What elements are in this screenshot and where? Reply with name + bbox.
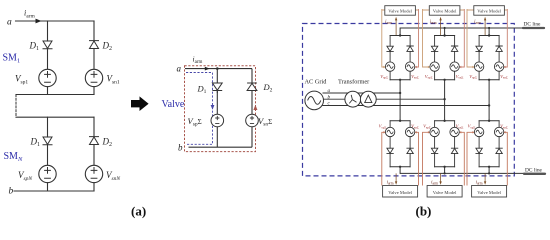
- diode D2 (SM1): [90, 41, 99, 52]
- wire SMN top rail: [16, 116, 94, 118]
- red dashed box (valve boundary): [185, 66, 256, 152]
- control wire upper valve 1 right: [416, 9, 419, 67]
- AC grid source: [305, 91, 324, 110]
- wire left branch SMN: [47, 117, 49, 137]
- node bus junction leg2 bottom: [444, 172, 446, 174]
- transformer delta circle: [360, 91, 376, 107]
- wire source to bottom (right): [251, 127, 253, 147]
- wire between D1 and source: [47, 49, 49, 69]
- svg-text:Transformer: Transformer: [338, 79, 370, 86]
- leg 2 vertical: [444, 80, 446, 121]
- diode D1 (valve): [212, 83, 222, 93]
- upper valve leg 2: [425, 6, 464, 81]
- blue dashed system boundary: [303, 24, 515, 176]
- wire left branch (valve): [216, 69, 218, 83]
- wire left branch SM1 upper: [47, 21, 49, 41]
- control wire lower valve 3 left: [467, 132, 473, 185]
- source Vsp sum circle: [211, 114, 224, 127]
- wire right branch SM1 upper: [93, 21, 95, 41]
- source Vsn sum circle: [246, 114, 259, 127]
- wire SM1 bottom connections: [48, 87, 95, 95]
- svg-text:b: b: [178, 143, 183, 153]
- upper valve leg 3: [469, 6, 508, 81]
- wire D1 to source: [216, 90, 218, 114]
- control wire lower valve 1 left: [382, 132, 384, 185]
- control wire lower valve 1 right: [416, 132, 419, 185]
- upper valve leg 1: [380, 6, 419, 81]
- svg-text:(b): (b): [416, 204, 432, 219]
- svg-text:DC line: DC line: [525, 168, 543, 174]
- phase line c: [323, 105, 490, 107]
- source VsnN circle: [85, 165, 102, 182]
- control wire lower valve 2 left: [423, 132, 429, 185]
- node bus junction leg2 top: [444, 27, 446, 29]
- control wire stubs at valve model boxes (top): [382, 9, 508, 11]
- control wire upper valve 1 left: [382, 9, 384, 67]
- arrow on valve top rail: [205, 67, 210, 71]
- blue down arrow: [211, 105, 215, 110]
- DC negative bus: [400, 172, 544, 174]
- DC cable segment (top): [523, 27, 544, 29]
- wire top rail from a: [16, 20, 95, 22]
- diode D2 (valve): [247, 83, 257, 93]
- wire D2 to source: [251, 90, 253, 114]
- diode D1 (SMN): [43, 137, 52, 148]
- phase line a: [323, 92, 401, 94]
- control wire lower valve 2 right: [461, 132, 465, 185]
- big transform arrow: [131, 96, 149, 111]
- lower valve leg 1: [379, 120, 419, 197]
- wire valve bottom rail: [189, 146, 253, 148]
- control wire upper valve 3 right: [505, 9, 508, 67]
- source Vsp1 circle: [39, 69, 56, 86]
- arrow on top rail: [36, 19, 42, 24]
- leg 1 vertical: [399, 80, 401, 121]
- wire valve top rail: [185, 68, 252, 70]
- node phase b junction: [443, 98, 445, 100]
- diode D2 (SMN): [90, 137, 99, 148]
- svg-text:Valve: Valve: [162, 99, 185, 110]
- transformer wye circle: [345, 91, 361, 107]
- source Vsn1 circle: [85, 69, 102, 86]
- source VspN circle: [39, 165, 56, 182]
- phase line b: [323, 98, 445, 100]
- lower valve leg 3: [468, 120, 508, 197]
- DC positive bus: [400, 27, 543, 29]
- lower valve leg 2: [423, 120, 463, 197]
- junction node: [216, 67, 219, 70]
- node phase c junction: [488, 104, 490, 106]
- blue dashed path (upper SM string): [186, 73, 213, 145]
- wire source to bottom (left): [216, 127, 218, 147]
- control wire lower valve 3 right: [505, 132, 508, 185]
- svg-text:b: b: [9, 187, 14, 197]
- DC cable segment (bottom): [524, 173, 545, 175]
- wire SMN bottom connections: [48, 183, 95, 191]
- svg-text:AC Grid: AC Grid: [305, 79, 328, 86]
- svg-text:(a): (a): [131, 204, 146, 219]
- node bus junction leg3 bottom: [488, 172, 490, 174]
- red up arrow on box edge: [253, 105, 257, 110]
- wire SM1 bottom rail: [16, 94, 94, 96]
- dashed continuation wire: [15, 95, 17, 118]
- wire between D2 and source: [93, 49, 95, 70]
- wire D2 to VsnN: [93, 145, 95, 166]
- svg-text:a: a: [7, 18, 12, 28]
- wire right branch (valve): [251, 69, 253, 83]
- node phase a junction: [399, 92, 401, 94]
- control wire upper valve 2 left: [423, 9, 429, 67]
- svg-text:a: a: [177, 64, 182, 74]
- wire bottom rail to node b: [14, 190, 94, 192]
- diode D1 (SM1): [43, 41, 52, 52]
- control wire upper valve 2 right: [461, 9, 465, 67]
- control wire upper valve 3 left: [467, 9, 473, 67]
- svg-text:DC line: DC line: [524, 22, 542, 28]
- wire right branch SMN: [93, 117, 95, 136]
- leg 3 vertical: [488, 80, 490, 121]
- wire D1 to VspN: [47, 145, 49, 165]
- node bus junction leg3 top: [488, 27, 490, 29]
